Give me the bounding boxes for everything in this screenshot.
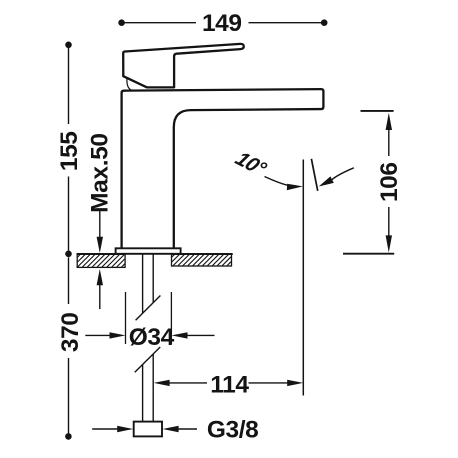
Max.50 down arrow bbox=[97, 211, 103, 253]
angle arc right with arrow bbox=[319, 168, 354, 187]
countertop hatch left block bbox=[77, 254, 126, 267]
svg-text:155: 155 bbox=[56, 131, 83, 171]
supply pipe upper left line bbox=[142, 254, 144, 313]
dimension 149 line left segment bbox=[125, 22, 196, 24]
dimension 149 right dot bbox=[321, 19, 328, 26]
dimension 155 line upper segment bbox=[68, 48, 70, 125]
dimension O34 label bbox=[129, 324, 175, 351]
svg-text:149: 149 bbox=[202, 10, 242, 37]
svg-text:Ø34: Ø34 bbox=[129, 324, 175, 351]
dimension 370 bottom dot bbox=[65, 433, 72, 440]
dimension 149 line right segment bbox=[249, 22, 322, 24]
svg-text:370: 370 bbox=[57, 312, 84, 352]
label G3/8 bbox=[207, 417, 259, 444]
dimension mid dot at countertop bbox=[65, 251, 72, 258]
svg-text:G3/8: G3/8 bbox=[207, 417, 259, 444]
dimension 155 label bbox=[56, 131, 83, 171]
extension line right for O34 bbox=[170, 292, 172, 344]
dimension 370 label bbox=[57, 312, 84, 352]
dimension 106 down arrow bbox=[386, 207, 392, 253]
G3/8 left arrow bbox=[92, 426, 133, 432]
extension line left for O34 bbox=[125, 292, 127, 344]
angle arc left with arrow bbox=[265, 177, 303, 191]
label Max.50 bbox=[87, 133, 114, 213]
dimension 155 line lower segment bbox=[68, 177, 70, 251]
pipe break slash lower bbox=[135, 347, 160, 372]
water stream axis line bbox=[302, 160, 304, 396]
dimension 149 label bbox=[202, 10, 242, 37]
dimension 106 label bbox=[376, 162, 403, 202]
dimension O34 right arrow bbox=[172, 332, 215, 338]
dimension 106 up arrow bbox=[386, 113, 392, 156]
dimension 370 line upper segment bbox=[68, 257, 70, 304]
dimension 106 top tick bbox=[361, 110, 394, 112]
supply pipe lower left line bbox=[142, 365, 144, 422]
svg-text:106: 106 bbox=[376, 162, 403, 202]
Max.50 up arrow bbox=[97, 269, 103, 309]
dimension 155 top dot bbox=[65, 42, 72, 49]
handle cartridge arc bbox=[127, 78, 132, 90]
dimension O34 left arrow bbox=[85, 332, 125, 338]
faucet handle lever bbox=[123, 44, 244, 88]
dimension 114 left arrow bbox=[154, 380, 207, 386]
pipe break slash upper bbox=[136, 296, 161, 321]
dimension 114 label bbox=[210, 371, 249, 398]
dimension 106 bottom tick bbox=[343, 253, 394, 255]
faucet body and spout bbox=[122, 89, 324, 249]
svg-text:114: 114 bbox=[210, 371, 249, 398]
G3/8 right arrow bbox=[163, 426, 197, 432]
supply pipe lower right line bbox=[152, 354, 154, 422]
G3/8 fitting bbox=[134, 422, 162, 437]
dimension 149 left dot bbox=[118, 19, 125, 26]
supply pipe upper right line bbox=[152, 254, 154, 303]
countertop hatch right block bbox=[172, 254, 233, 266]
dimension 370 line lower segment bbox=[68, 358, 70, 434]
label 10 deg bbox=[231, 148, 271, 181]
faucet base plate bbox=[116, 248, 181, 254]
tilted stream line 10 deg bbox=[311, 159, 317, 191]
svg-text:Max.50: Max.50 bbox=[87, 133, 114, 213]
dimension 114 right arrow bbox=[249, 380, 304, 386]
